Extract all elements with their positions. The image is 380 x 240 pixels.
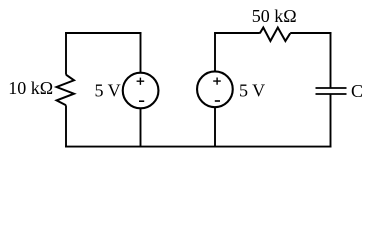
wire: V1 branch upper xyxy=(140,32,142,73)
wire: right loop top right segment xyxy=(290,32,331,34)
wire: V1 branch lower xyxy=(140,108,142,147)
V2 minus sign xyxy=(215,100,220,102)
svg-text:50 kΩ: 50 kΩ xyxy=(252,6,297,26)
wire: V2 branch lower xyxy=(214,107,216,147)
V2 plus sign xyxy=(213,78,221,85)
V1 plus sign xyxy=(137,78,145,85)
svg-text:C: C xyxy=(351,81,363,101)
svg-text:5 V: 5 V xyxy=(95,81,121,101)
svg-text:5 V: 5 V xyxy=(239,80,265,100)
capacitor C plates xyxy=(316,88,347,94)
resistor R1 10 kOhm (vertical zigzag) xyxy=(57,75,74,106)
wire: V2 branch upper xyxy=(214,32,216,71)
resistor R2 50 kOhm (horizontal zigzag) xyxy=(260,28,290,42)
wire: left loop left vertical upper xyxy=(65,32,67,75)
wire: capacitor branch lower xyxy=(330,94,332,148)
svg-text:10 kΩ: 10 kΩ xyxy=(8,78,53,98)
wire: left loop left vertical lower xyxy=(65,105,67,147)
voltage source V1 circle xyxy=(123,73,159,109)
wire: left loop top xyxy=(65,32,141,34)
V1 minus sign xyxy=(139,100,144,102)
wire: bottom bus xyxy=(65,146,331,148)
wire: right loop top left segment xyxy=(214,32,260,34)
wire: capacitor branch upper xyxy=(330,32,332,88)
voltage source V2 circle xyxy=(197,71,233,107)
